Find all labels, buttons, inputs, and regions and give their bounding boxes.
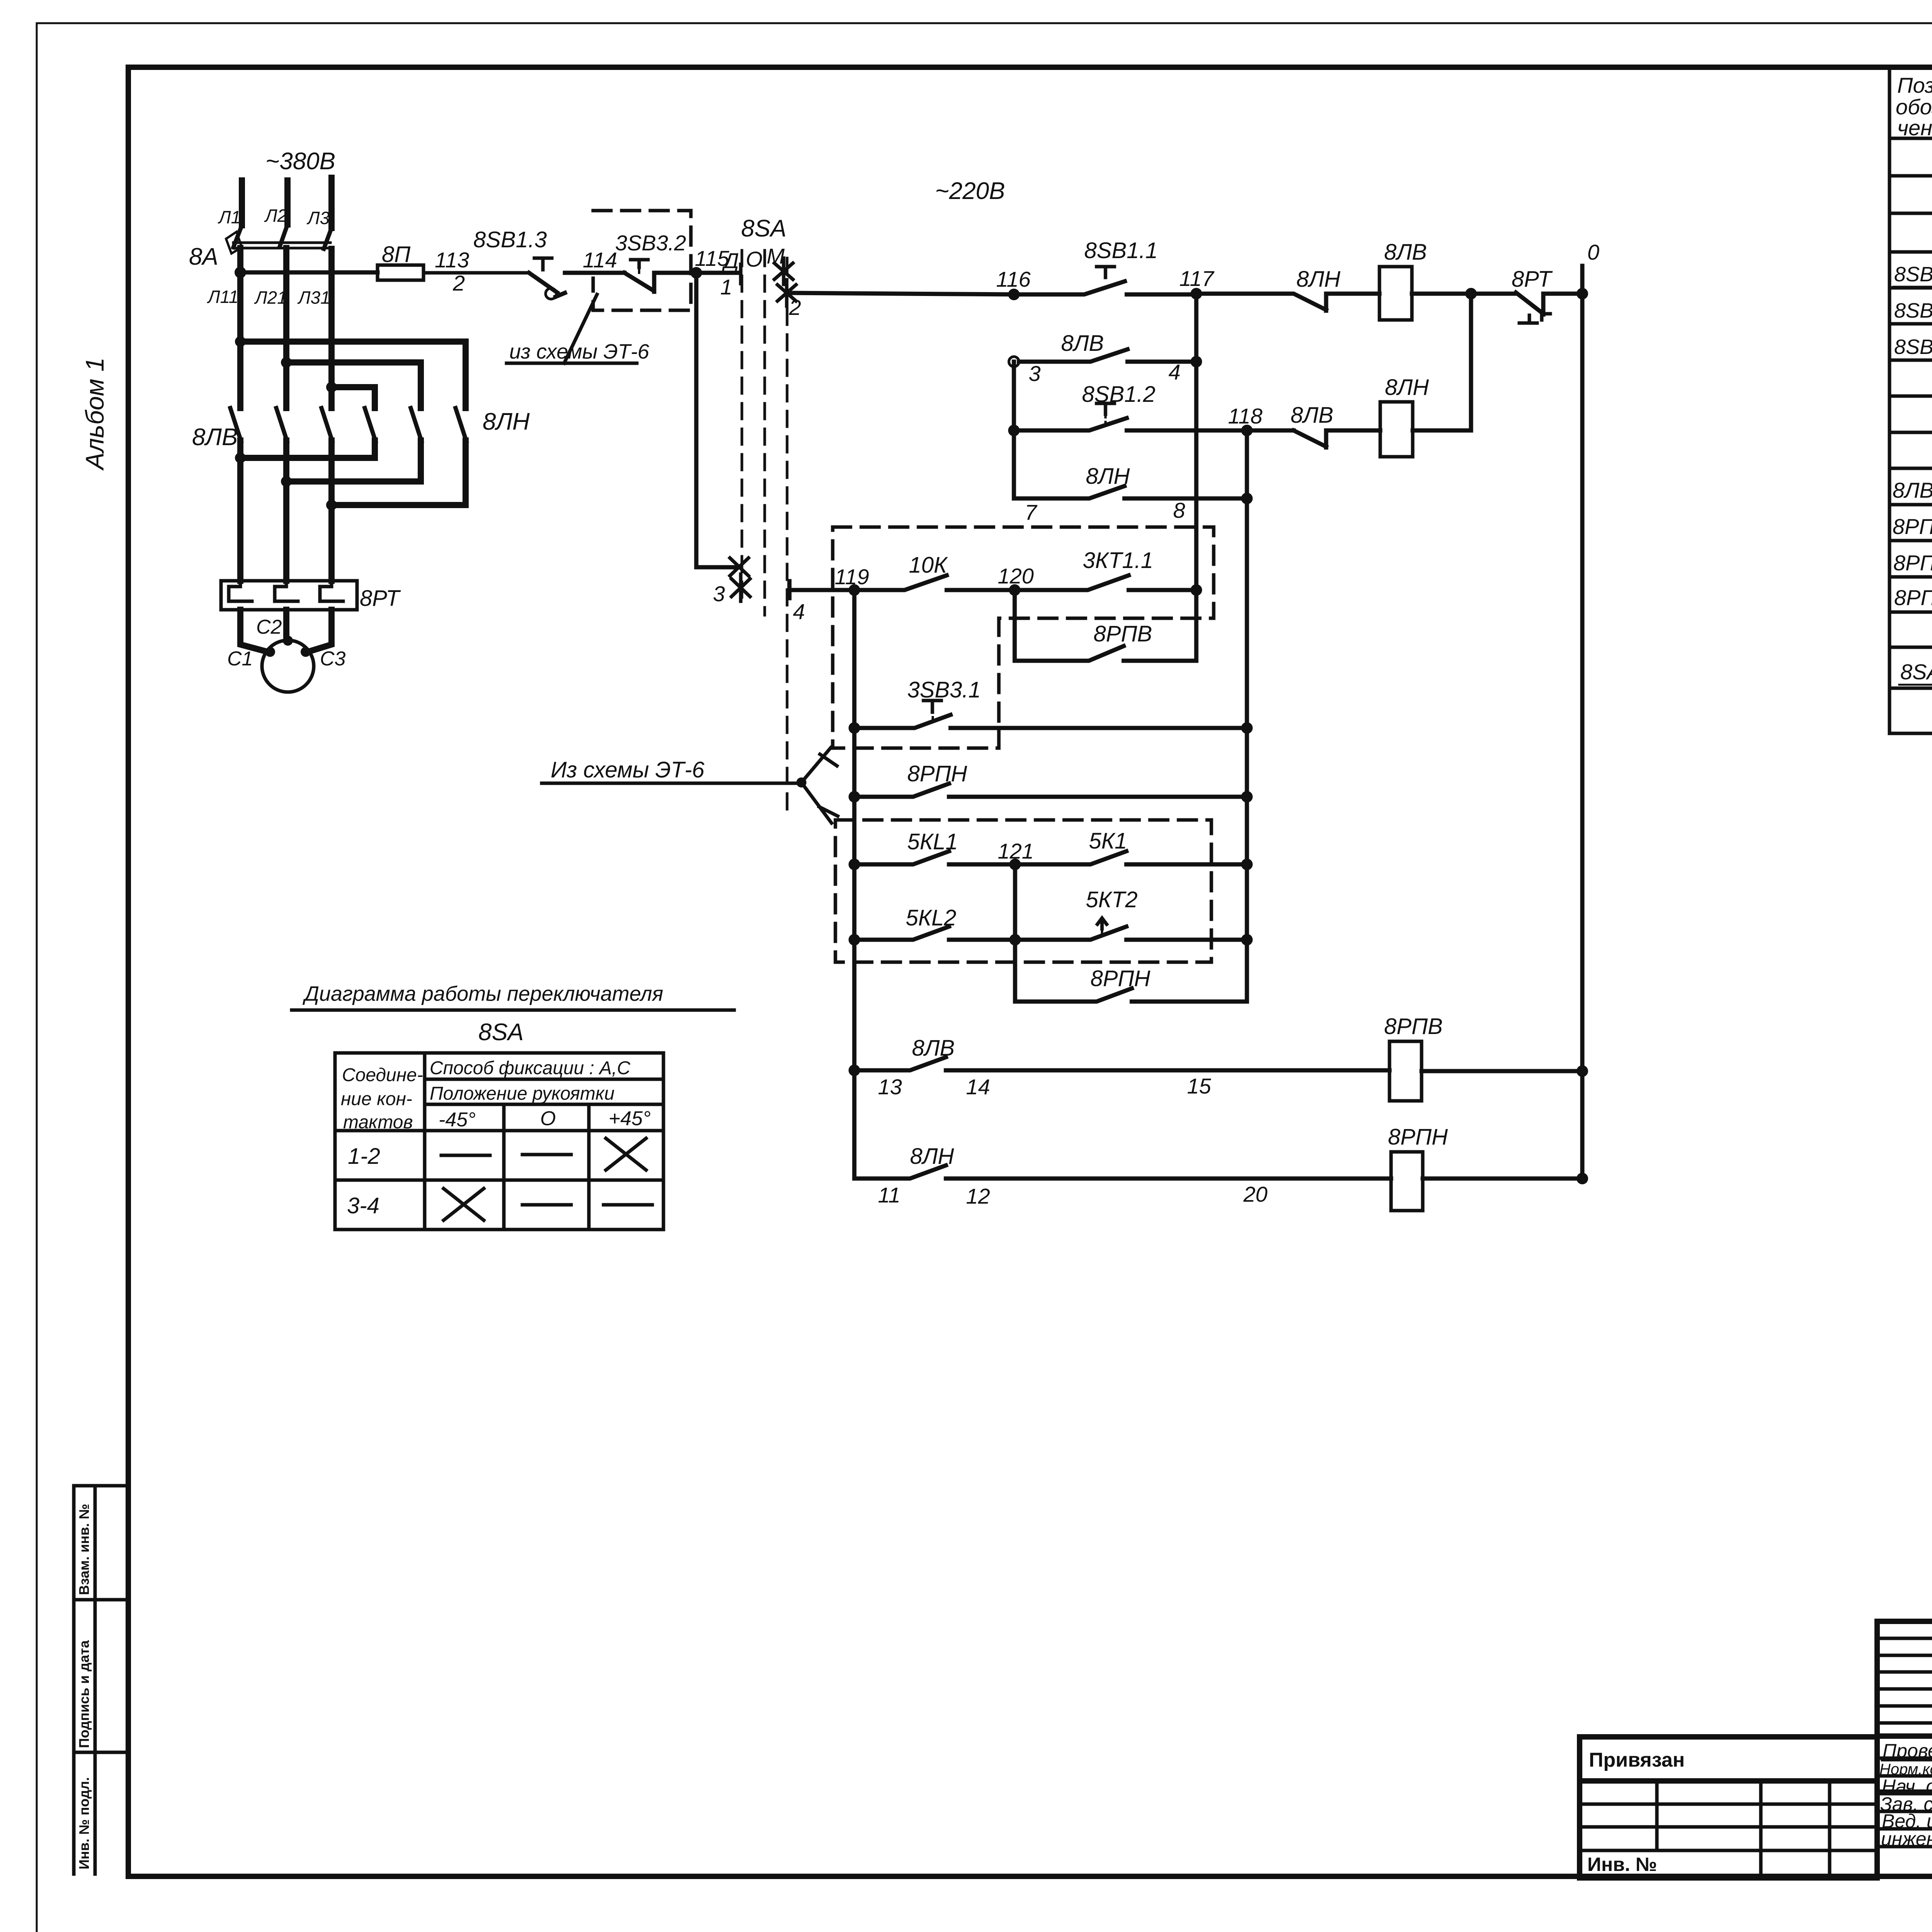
svg-text:3-4: 3-4 [347,1193,379,1218]
svg-text:Поз.: Поз. [1897,73,1932,97]
svg-text:Подпись и дата: Подпись и дата [76,1640,92,1748]
svg-text:тактов: тактов [343,1112,413,1133]
interlock NC contact 8ЛН [1196,294,1379,311]
bypass NO contact 8РПН under dashed box [1015,940,1247,1002]
svg-text:С3: С3 [320,648,346,670]
dashed mechanical link box 8SB1.3/3SB3.2 [593,211,691,310]
svg-text:10К: 10К [909,553,948,578]
svg-text:С1: С1 [227,648,253,670]
svg-text:8SB1.3: 8SB1.3 [1894,335,1932,359]
dashed enclosure 5К group [835,820,1211,962]
svg-text:8РТ: 8РТ [1512,267,1553,292]
svg-text:Положение рукоятки: Положение рукоятки [430,1083,614,1104]
svg-text:12: 12 [966,1184,990,1208]
svg-text:чение.: чение. [1897,116,1932,140]
svg-text:117: 117 [1179,266,1214,291]
svg-text:3: 3 [713,582,725,606]
svg-text:С2: С2 [256,616,282,638]
svg-text:8SB1.2: 8SB1.2 [1082,382,1155,407]
svg-text:8ЛВ, 8ЛН,: 8ЛВ, 8ЛН, [1893,478,1932,502]
svg-text:8ЛН: 8ЛН [1086,464,1130,489]
svg-text:5КL2: 5КL2 [906,905,956,930]
svg-text:3КТ1.1: 3КТ1.1 [1083,548,1153,573]
svg-text:1: 1 [720,275,732,299]
svg-text:Провер.: Провер. [1883,1740,1932,1762]
svg-text:Альбом 1: Альбом 1 [80,357,109,471]
svg-text:8: 8 [1173,498,1185,522]
auxiliary NO contact 8ЛВ (terminals 3-4) [1009,357,1019,367]
svg-text:14: 14 [966,1075,990,1099]
neutral rail 0 [1580,266,1585,1179]
svg-text:Л2: Л2 [264,206,287,226]
self-hold NO contact 8РПВ branch [1015,590,1196,661]
svg-text:~380В: ~380В [265,148,335,175]
svg-text:3: 3 [1029,361,1041,386]
svg-text:5К1: 5К1 [1089,828,1127,854]
svg-text:2: 2 [789,295,801,320]
thermal relay 8РТ heater elements [229,581,343,601]
svg-text:8ЛН: 8ЛН [910,1144,954,1169]
svg-text:8ЛВ: 8ЛВ [1061,331,1104,356]
bus stub Л3 [328,178,335,228]
svg-text:8SB1.3: 8SB1.3 [473,227,547,252]
auxiliary NO contact 8ЛН (terminals 7-8) [1014,362,1247,498]
svg-text:116: 116 [996,267,1031,291]
svg-text:О: О [746,247,763,271]
svg-text:~220В: ~220В [935,178,1005,204]
phase output tie wires [240,440,466,505]
svg-text:8А: 8А [189,243,218,270]
svg-text:1-2: 1-2 [348,1144,380,1169]
svg-text:8РПВ,8А,: 8РПВ,8А, [1893,551,1932,575]
circuit breaker 8А handle [226,232,242,253]
svg-text:Л21: Л21 [254,287,287,308]
wire: tap to fuse 8П [240,270,378,275]
svg-text:Д: Д [721,248,739,273]
svg-text:7: 7 [1025,500,1037,524]
svg-text:119: 119 [835,565,869,589]
svg-text:8П: 8П [382,242,411,267]
svg-text:Из схемы ЭТ-6: Из схемы ЭТ-6 [551,757,705,782]
svg-text:Инв. № подл.: Инв. № подл. [76,1777,92,1869]
pushbutton 8SB1.3 (Стоп, NC) [529,273,557,293]
svg-text:5КL1: 5КL1 [907,829,958,854]
svg-text:8ЛВ: 8ЛВ [1384,240,1427,265]
junction: control circuit tap on Л11 [235,267,246,278]
svg-text:8РПН: 8РПН [1090,966,1150,991]
circuit breaker 8А linkage bar [233,243,330,248]
svg-text:8РПН: 8РПН [907,761,967,786]
svg-text:4: 4 [1168,360,1180,384]
NO contact 8РПН row [849,791,860,803]
svg-text:5КТ2: 5КТ2 [1086,887,1138,912]
svg-text:Взам. инв. №: Взам. инв. № [76,1504,92,1595]
pushbutton 8SB1.1 (Вперед, NO) [1014,281,1196,294]
relay coil 8РПВ row (terminals 13-14-15), contact 8ЛВ [849,1065,860,1076]
node 117 junction [1190,288,1202,299]
interlock NC contact 8ЛВ [1294,430,1380,447]
contactor coil 8ЛВ (U: 8ЛВ) [1379,267,1412,320]
svg-text:Привязан: Привязан [1589,1749,1685,1771]
svg-text:15: 15 [1187,1074,1211,1098]
svg-text:8РТ: 8РТ [360,586,401,611]
contactor 8ЛВ main contacts [230,408,332,441]
svg-text:8ЛН: 8ЛН [1385,375,1429,400]
svg-text:Л31: Л31 [297,287,330,308]
svg-text:3SB3.1: 3SB3.1 [907,677,981,702]
contacts 5КL2 and 5КТ2 [849,934,860,946]
bus stub Л2 [284,180,291,224]
reversing crossover wires [240,342,466,408]
svg-text:11: 11 [878,1183,900,1207]
svg-text:8РПН .: 8РПН . [1894,585,1932,610]
svg-text:-45°: -45° [439,1109,476,1131]
svg-text:8ЛН: 8ЛН [1296,267,1340,292]
wire and node 115 [654,271,740,275]
node 116 junction [1008,289,1020,300]
svg-text:Л1: Л1 [218,207,241,227]
svg-text:8ЛН: 8ЛН [483,408,530,435]
bus stub Л1 [239,180,245,225]
wire: left rail from node 119 down [852,590,857,1179]
svg-text:8SA: 8SA [478,1019,524,1046]
svg-text:8ЛВ: 8ЛВ [192,424,238,451]
switch 8SA contact 3-4 [696,273,739,567]
svg-text:118: 118 [1228,404,1262,428]
svg-text:8РПН: 8РПН [1388,1124,1448,1150]
thermal relay 8РТ heater box [221,581,357,610]
thermal relay NC contact 8РТ [1516,293,1582,315]
switch 8SA position lines Д О М [742,250,787,819]
svg-text:+45°: +45° [609,1107,651,1130]
svg-text:Диаграмма работы переключател: Диаграмма работы переключателя [303,982,663,1005]
relay coil 8РПН row (terminals 11-12-20), contact 8ЛН [854,1165,1391,1179]
table grid [1889,67,1932,733]
svg-text:120: 120 [998,564,1034,588]
node 119, contact 10К, node 120, contact 3КТ1.1 [849,584,860,596]
fuse 8П [240,265,529,280]
power wires Л11 Л21 Л31 [240,248,332,581]
svg-text:из схемы ЭТ-6: из схемы ЭТ-6 [509,340,650,363]
svg-text:Л3: Л3 [306,208,330,228]
motor M (Двигатель) [262,640,314,692]
svg-text:13: 13 [878,1075,902,1099]
contacts 5КL1 and 5К1, node 121 [849,859,860,870]
contactor 8ЛН main contacts [365,408,466,441]
svg-text:Инв. №: Инв. № [1587,1854,1657,1875]
switch 8SA contact 2 (✕) and wire 2 [777,280,796,306]
pushbutton 3SB3.2 (NC) [624,273,654,292]
svg-text:4: 4 [793,599,805,624]
dashed enclosure (блок БМС) upper [833,527,1214,748]
svg-text:0: 0 [1587,240,1599,264]
pushbutton 3SB3.1 row [849,722,860,734]
svg-text:О: О [540,1107,556,1130]
svg-text:8ЛВ: 8ЛВ [1291,403,1333,428]
svg-text:8SB1.1: 8SB1.1 [1894,263,1932,286]
svg-text:8РПВ: 8РПВ [1094,621,1152,646]
svg-text:8SA: 8SA [1900,660,1932,684]
svg-text:ние кон-: ние кон- [341,1089,412,1109]
svg-text:инженер.: инженер. [1881,1828,1932,1850]
switch 8SA contact 1 (✕) [774,258,793,284]
svg-text:20: 20 [1243,1182,1267,1206]
svg-text:8РП, 8РТ,: 8РП, 8РТ, [1893,514,1932,539]
svg-text:8ЛВ: 8ЛВ [912,1036,955,1061]
svg-text:Л11: Л11 [207,287,238,307]
svg-text:114: 114 [583,248,617,272]
svg-text:113: 113 [435,248,469,272]
wire 114 [565,271,624,275]
pushbutton 8SB1.2 (Назад), node 118 [1008,425,1020,436]
svg-text:8РПВ: 8РПВ [1384,1014,1443,1039]
circuit breaker 8А blades [233,224,332,249]
motor leads С1 С2 С3 [240,610,332,652]
svg-text:2: 2 [452,271,465,295]
svg-text:8SB1.2: 8SB1.2 [1894,299,1932,322]
svg-text:Способ фиксации : А,С: Способ фиксации : А,С [430,1058,631,1078]
contactor coil 8ЛН (U: 8ЛН) [1380,402,1413,457]
svg-text:8SA: 8SA [741,215,786,242]
svg-text:8SB1.1: 8SB1.1 [1084,238,1158,263]
svg-text:3SB3.2: 3SB3.2 [615,231,686,255]
svg-text:Соедине-: Соедине- [342,1065,423,1085]
